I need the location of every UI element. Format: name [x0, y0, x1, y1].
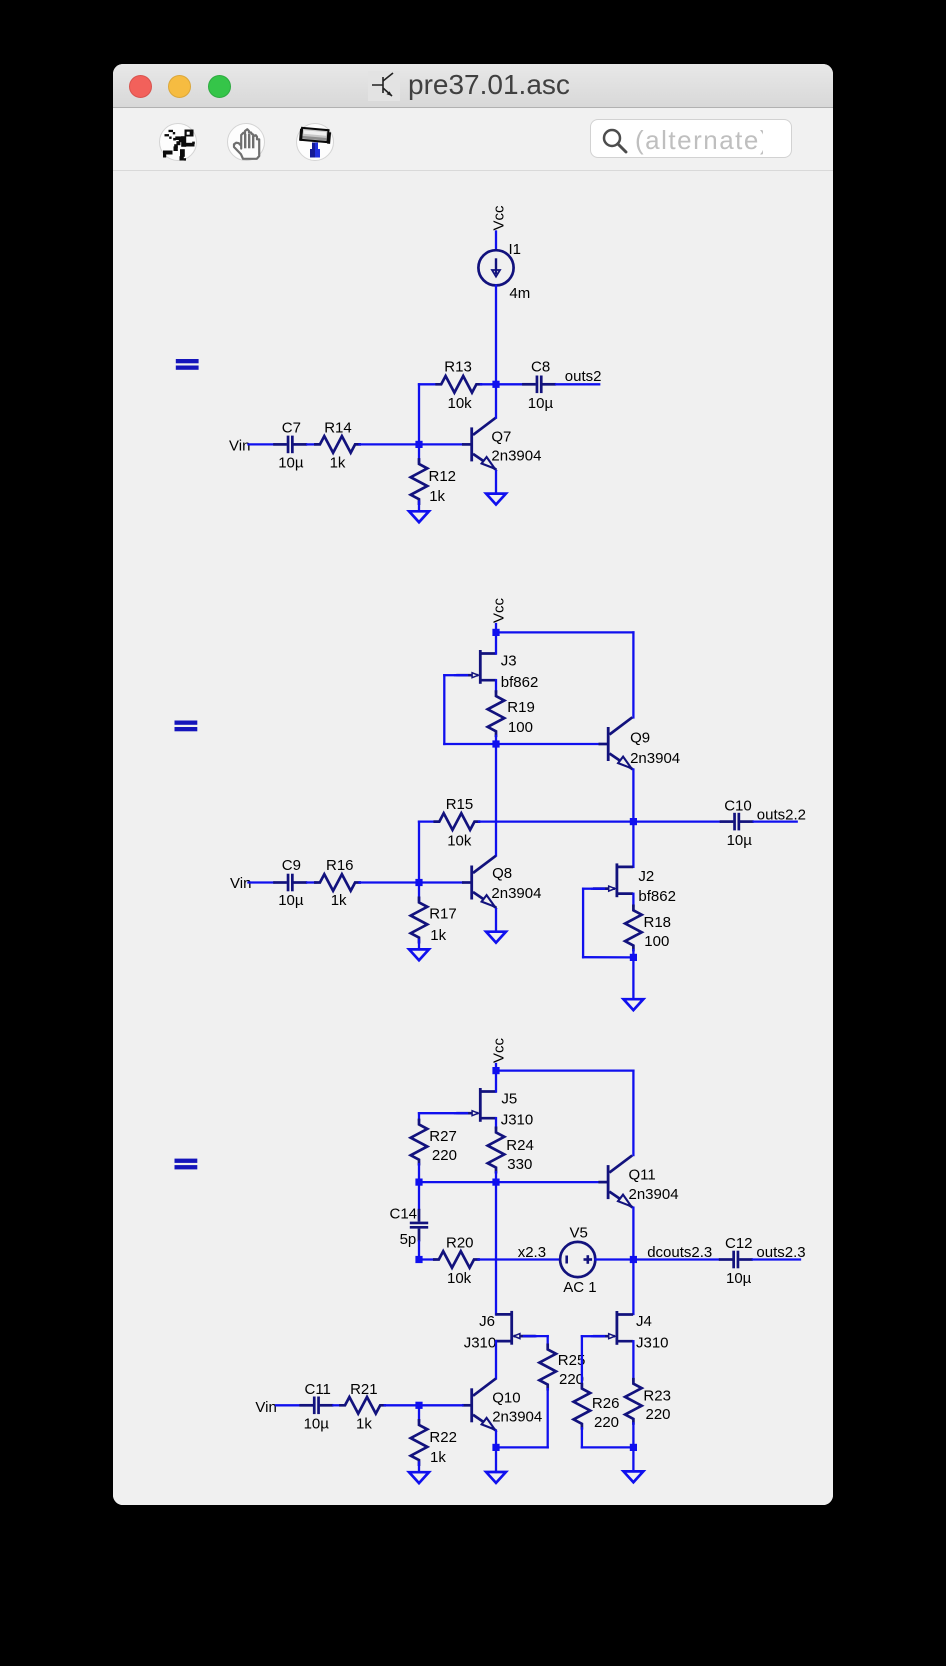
wire C11 to R21 [333, 1404, 340, 1406]
node: output bus junction [630, 818, 637, 825]
svg-text:220: 220 [594, 1414, 619, 1431]
wire R22 to ground [418, 1462, 420, 1472]
wire node to R22 [418, 1409, 420, 1421]
svg-text:1k: 1k [330, 455, 346, 472]
wire R24 node down to J6 drain [495, 1182, 497, 1314]
svg-text:10µ: 10µ [727, 832, 753, 849]
equals sign, stage 2 [175, 721, 198, 725]
wire gate down to R25 [547, 1336, 549, 1345]
svg-text:Q7: Q7 [491, 428, 511, 445]
wire node to ground [632, 957, 634, 999]
wire J4 gate stub [592, 1335, 604, 1337]
svg-text:R24: R24 [506, 1137, 534, 1154]
JFET J6 J310 [496, 1311, 536, 1345]
wire J3 drain to Vcc node [495, 636, 497, 654]
svg-text:4m: 4m [509, 285, 530, 302]
svg-text:1k: 1k [331, 892, 347, 909]
wire J2 loop down [582, 889, 584, 958]
wire Vin to C9 [249, 881, 274, 883]
wire J3 source to R19 [495, 680, 497, 691]
wire R13 to node and C8 [481, 383, 522, 385]
svg-text:330: 330 [507, 1156, 532, 1173]
wire feedback loop down [443, 675, 445, 744]
svg-text:outs2.2: outs2.2 [757, 807, 806, 824]
wire Q8 emitter to ground [495, 909, 497, 931]
svg-text:1k: 1k [356, 1416, 372, 1433]
svg-text:outs2.3: outs2.3 [756, 1244, 805, 1261]
wire node to C12 [633, 1258, 718, 1260]
svg-text:Vcc: Vcc [490, 1037, 507, 1063]
svg-text:5p: 5p [400, 1231, 417, 1248]
svg-text:J6: J6 [479, 1313, 495, 1330]
wire Vcc to I1 [495, 232, 497, 251]
svg-text:10µ: 10µ [726, 1270, 752, 1287]
application window [113, 64, 833, 1505]
wire J5 drain to Vcc node [495, 1074, 497, 1092]
wire R25 down [547, 1389, 549, 1447]
wire node down to Q8 collector [495, 748, 497, 856]
node: Vcc junction stage 3 [492, 1067, 499, 1074]
svg-text:Q11: Q11 [629, 1166, 656, 1183]
resistor R21 [341, 1397, 385, 1414]
JFET J3 bf862 [456, 650, 496, 684]
wire C8 to outs2 [556, 383, 599, 385]
wire V5 to node [596, 1258, 634, 1260]
svg-text:R23: R23 [643, 1387, 671, 1404]
svg-text:C7: C7 [282, 420, 301, 437]
wire Vcc rail to Q9 [496, 631, 633, 633]
wire J5 gate stub [455, 1112, 467, 1114]
svg-text:R13: R13 [444, 358, 472, 375]
wire corner to R15 [419, 820, 435, 822]
wire bus down to J2 drain [632, 822, 634, 867]
wire node to R12 [418, 448, 420, 462]
equals sign, stage 3 [175, 1159, 198, 1163]
wire node to ground [495, 1447, 497, 1472]
wire C14 to bus node [418, 1241, 420, 1259]
wire R19 to node [495, 736, 497, 744]
wire Q11 emitter down to J4 [632, 1208, 634, 1314]
resistor R25 [539, 1345, 556, 1389]
node: C14 bottom junction [415, 1256, 422, 1263]
wire C7 to R14 [307, 443, 315, 445]
svg-text:C14: C14 [390, 1206, 418, 1223]
schematic canvas [113, 172, 833, 1505]
ground under R18 [624, 999, 644, 1010]
svg-text:220: 220 [432, 1147, 457, 1164]
node: Vcc junction stage 2 [492, 629, 499, 636]
wire J2 gate to loop [583, 888, 594, 890]
svg-text:10k: 10k [447, 833, 472, 850]
svg-text:C9: C9 [282, 857, 301, 874]
capacitor C7 [273, 436, 307, 454]
resistor R18 [625, 906, 642, 950]
ground under R17 [409, 949, 429, 960]
resistor R13 [437, 376, 481, 393]
search field [590, 119, 792, 159]
resistor R19 [488, 692, 505, 736]
capacitor C14 [410, 1209, 428, 1242]
wire input node up to R15 [418, 822, 420, 883]
svg-text:1k: 1k [430, 1449, 446, 1466]
wire C12 to outs2.3 [753, 1258, 800, 1260]
node: Q7 base junction [415, 441, 422, 448]
transistor Q7 2n3904 [462, 418, 496, 470]
config tool button (hammer) [296, 123, 334, 161]
capacitor C11 [299, 1397, 333, 1415]
JFET J5 J310 [456, 1088, 496, 1122]
svg-text:C11: C11 [305, 1381, 331, 1398]
svg-text:J3: J3 [501, 652, 517, 669]
svg-text:R20: R20 [446, 1235, 474, 1252]
svg-text:AC 1: AC 1 [563, 1279, 596, 1296]
resistor R20 [434, 1251, 478, 1268]
resistor R16 [315, 874, 359, 891]
run tool button (running man) [159, 123, 197, 161]
zoom button (green) [208, 75, 231, 98]
wire node down to C14 [418, 1182, 420, 1209]
transistor Q9 2n3904 [599, 717, 633, 769]
ground under Q7 [486, 494, 506, 505]
wire Vcc to node [495, 1064, 497, 1071]
wire node to R20 [419, 1258, 434, 1260]
wire Vcc to node [495, 624, 497, 632]
JFET J4 J310 [593, 1311, 633, 1345]
JFET J2 bf862 [593, 863, 633, 897]
wire R17 to ground [418, 940, 420, 950]
wire gate down to R26 [581, 1336, 583, 1384]
svg-text:220: 220 [646, 1406, 671, 1423]
wire mid rail to Q11 base [419, 1181, 599, 1183]
wire R23 to node [632, 1423, 634, 1447]
wire gate down to R27 [418, 1113, 420, 1120]
svg-text:I1: I1 [509, 241, 522, 258]
capacitor C9 [273, 874, 307, 892]
node: R18 bottom junction [630, 954, 637, 961]
svg-text:R12: R12 [429, 468, 457, 485]
wire C9 to R16 [307, 881, 315, 883]
node: dcouts2.3 junction [630, 1256, 637, 1263]
wire node to R17 [418, 886, 420, 900]
wire J3 gate stub [455, 674, 467, 676]
svg-text:2n3904: 2n3904 [629, 1186, 679, 1203]
svg-text:bf862: bf862 [638, 888, 676, 905]
resistor R17 [411, 898, 428, 942]
wire rail down to Q9 collector [632, 632, 634, 717]
svg-text:10µ: 10µ [278, 892, 304, 909]
svg-text:J4: J4 [636, 1313, 652, 1330]
svg-text:J2: J2 [638, 868, 654, 885]
wire J4 source to R23 [632, 1341, 634, 1379]
wire Q9 emitter to bus [632, 770, 634, 822]
wire R18 to node [632, 950, 634, 957]
svg-text:10k: 10k [447, 1270, 472, 1287]
svg-text:Vcc: Vcc [490, 597, 507, 623]
wire node to R13 level [418, 384, 420, 444]
svg-text:Q8: Q8 [492, 865, 512, 882]
svg-text:2n3904: 2n3904 [630, 750, 680, 767]
svg-text:Q9: Q9 [630, 729, 650, 746]
toolbar [113, 109, 833, 171]
node: Q10 emitter junction [492, 1444, 499, 1451]
pan tool button (hand) [227, 123, 265, 161]
wire R25 loop to node [500, 1446, 548, 1448]
node: Q10 base junction [415, 1402, 422, 1409]
svg-text:R21: R21 [350, 1381, 378, 1398]
transistor Q10 2n3904 [462, 1379, 496, 1431]
wire node to Q9 base [500, 743, 600, 745]
svg-text:x2.3: x2.3 [518, 1244, 546, 1261]
svg-text:2n3904: 2n3904 [491, 885, 541, 902]
wire R20 to V5 [479, 1258, 561, 1260]
wire R16 to Q8 base [360, 881, 463, 883]
svg-text:J310: J310 [464, 1335, 497, 1352]
wire R15 to C10 (output bus) [479, 820, 720, 822]
wire R14 to Q7 base [360, 443, 463, 445]
equals sign, stage 1 [176, 359, 199, 363]
svg-text:C10: C10 [724, 797, 752, 814]
svg-text:100: 100 [644, 933, 669, 950]
wire J5 gate to R27 [419, 1112, 457, 1114]
ground under Q10 [486, 1472, 506, 1483]
svg-text:R27: R27 [429, 1128, 457, 1145]
wire R27 to mid node [418, 1164, 420, 1182]
wire I1 to collector node [495, 286, 497, 385]
resistor R22 [411, 1420, 428, 1464]
resistor R26 [574, 1384, 591, 1428]
svg-text:outs2: outs2 [565, 368, 602, 385]
svg-text:1k: 1k [429, 488, 445, 505]
wire J4 gate to R26 [582, 1335, 594, 1337]
minimize button (yellow) [168, 75, 191, 98]
svg-text:2n3904: 2n3904 [491, 447, 541, 464]
node: R23 bottom junction [630, 1444, 637, 1451]
svg-text:2n3904: 2n3904 [492, 1409, 542, 1426]
wire J6 gate stub [524, 1335, 536, 1337]
wire R26 down [581, 1428, 583, 1447]
svg-text:10µ: 10µ [304, 1416, 330, 1433]
wire R12 to ground [418, 502, 420, 512]
svg-text:C12: C12 [725, 1235, 753, 1252]
node: J3 source / Q9 base junction [492, 740, 499, 747]
svg-text:10µ: 10µ [528, 395, 554, 412]
svg-text:J5: J5 [501, 1090, 517, 1107]
wire Vcc rail to Q11 [496, 1069, 633, 1071]
svg-text:bf862: bf862 [501, 674, 539, 691]
svg-text:R26: R26 [592, 1395, 620, 1412]
wire J2 loop to node [583, 956, 630, 959]
wire rail down to Q11 collector [632, 1071, 634, 1156]
transistor Q11 2n3904 [598, 1155, 632, 1207]
wire J6 gate to R25 [534, 1335, 548, 1337]
svg-text:220: 220 [559, 1371, 584, 1388]
svg-text:10µ: 10µ [278, 455, 304, 472]
wire J2 gate stub [592, 888, 604, 890]
wire C10 to outs2.2 [754, 820, 797, 822]
svg-text:Q10: Q10 [492, 1389, 520, 1406]
resistor R27 [411, 1120, 428, 1164]
svg-text:Vin: Vin [229, 438, 250, 455]
resistor R24 [488, 1128, 505, 1172]
capacitor C10 [720, 813, 754, 831]
wire R21 to Q10 base [385, 1404, 463, 1406]
svg-text:R16: R16 [326, 857, 354, 874]
voltage source V5 [560, 1242, 595, 1277]
current source I1 [478, 250, 513, 285]
wire R24 to mid node [495, 1172, 497, 1182]
ground under R23 [624, 1471, 644, 1482]
capacitor C8 [522, 376, 556, 394]
resistor R14 [315, 436, 359, 453]
svg-text:10k: 10k [448, 395, 473, 412]
svg-text:J310: J310 [636, 1335, 669, 1352]
ground under R12 [409, 511, 429, 522]
document icon (transistor) [368, 71, 400, 101]
resistor R12 [411, 460, 428, 504]
wire Vin to C11 [276, 1404, 299, 1406]
svg-text:J310: J310 [501, 1111, 534, 1128]
wire Q10 emitter to node [495, 1431, 497, 1448]
wire Q7 collector to node [495, 384, 497, 417]
wire loop to node [444, 743, 492, 745]
svg-text:R14: R14 [324, 420, 352, 437]
node: collector junction [492, 381, 499, 388]
svg-text:100: 100 [508, 719, 533, 736]
svg-text:C8: C8 [531, 358, 550, 375]
wire Q7 emitter to ground [495, 471, 497, 494]
svg-text:Vcc: Vcc [490, 205, 507, 231]
svg-text:R18: R18 [644, 914, 672, 931]
svg-text:1k: 1k [430, 927, 446, 944]
node: R24 bottom junction [492, 1179, 499, 1186]
wire R26 to node [582, 1446, 630, 1448]
transistor Q8 2n3904 [462, 856, 496, 908]
title bar [113, 64, 833, 108]
resistor R15 [435, 813, 479, 830]
svg-text:V5: V5 [570, 1224, 588, 1241]
wire to R13 [419, 383, 437, 385]
wire J6 source to Q10 collector [495, 1341, 497, 1378]
ground under Q8 [486, 932, 506, 943]
svg-text:Vin: Vin [255, 1399, 276, 1416]
wire node to ground [632, 1447, 634, 1471]
node: R27 bottom junction [415, 1179, 422, 1186]
wire J3 gate to loop [444, 674, 457, 676]
svg-text:R19: R19 [507, 699, 535, 716]
svg-text:R15: R15 [446, 796, 474, 813]
wire J2 source to R18 [632, 894, 634, 906]
ground under R22 [409, 1472, 429, 1483]
wire J5 source to R24 [495, 1118, 497, 1128]
wire Vin to C7 [249, 443, 274, 445]
svg-text:R22: R22 [429, 1429, 457, 1446]
svg-text:R17: R17 [429, 905, 457, 922]
close button (red) [129, 75, 152, 98]
capacitor C12 [719, 1251, 753, 1269]
node: Q8 base junction [415, 879, 422, 886]
resistor R23 [625, 1379, 642, 1423]
